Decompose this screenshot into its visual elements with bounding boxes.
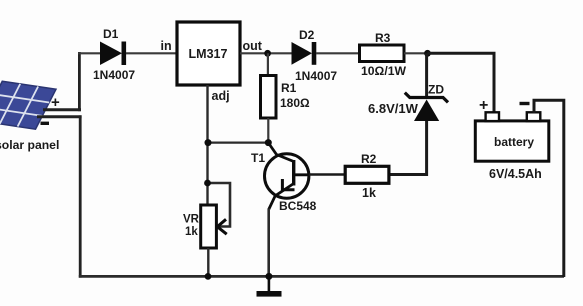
resistor R3 [360,45,405,62]
svg-text:1k: 1k [362,186,376,200]
transistor T1 [265,143,311,210]
wire vertical up to D1 rail [78,52,81,111]
svg-text:6.8V/1W: 6.8V/1W [368,101,419,116]
svg-text:180Ω: 180Ω [280,96,310,110]
svg-text:in: in [161,39,172,53]
svg-text:ZD: ZD [428,83,444,97]
potentiometer VR [201,183,230,248]
wire vertical down to bottom rail [79,115,82,277]
node wiper junction [204,180,211,187]
svg-text:T1: T1 [251,151,265,165]
wire adj down from LM317 [206,85,208,206]
wire junction to battery corner [428,53,495,113]
wire bottom ground rail [79,275,564,278]
svg-text:R2: R2 [361,152,377,166]
svg-text:battery: battery [494,135,534,149]
svg-text:1N4007: 1N4007 [93,68,135,82]
svg-text:out: out [243,39,263,53]
svg-text:adj: adj [212,89,230,103]
wire panel+ to vertical [43,108,81,111]
wire out junction to R1 [267,53,269,76]
node - (panel negative) [41,122,50,125]
diode D2 [292,42,317,65]
svg-text:+: + [479,97,488,114]
regulator U1 LM317 [177,22,240,85]
svg-text:R1: R1 [281,81,297,95]
resistor R2 [345,166,389,183]
wire junction down to zener [425,53,428,99]
node R3/ZD/battery junction [424,50,431,57]
svg-text:solar panel: solar panel [0,138,59,152]
svg-text:VR: VR [183,214,200,226]
svg-text:BC548: BC548 [279,199,317,213]
svg-text:6V/4.5Ah: 6V/4.5Ah [489,167,542,181]
wire panel- to vertical [37,115,82,118]
svg-text:1k: 1k [185,226,198,238]
wire LM317 out to D2 [240,52,292,54]
solar panel PV1 [0,81,56,129]
node adj junction [205,139,212,146]
wire D1 to LM317 in [126,52,177,54]
node collector junction [265,139,272,146]
ground [257,276,282,296]
svg-text:D1: D1 [103,27,119,41]
wire to D1 anode [78,52,101,54]
svg-text:D2: D2 [299,28,315,42]
wire D2 to R3 [316,52,360,54]
wire R3 to junction [404,52,428,54]
battery BT1 [475,112,549,161]
wire emitter to bottom rail [267,209,270,278]
svg-text:LM317: LM317 [189,47,228,61]
svg-text:R3: R3 [375,31,391,45]
diode D1 [100,42,126,66]
wire zener anode down to R2 wire [388,121,427,175]
svg-text:10Ω/1W: 10Ω/1W [361,64,406,78]
node out junction [264,50,271,57]
zener diode ZD [405,93,448,121]
wire base to R2 [309,173,346,176]
wire R1 bottom to collector node [267,118,269,143]
svg-text:1N4007: 1N4007 [295,69,337,83]
resistor R1 [261,76,277,119]
node VR/rail junction [205,273,212,280]
node - (battery) [520,102,530,105]
wire battery negative to right rail [534,100,564,277]
wire adj to collector node [208,142,269,144]
wire VR bottom to rail [207,248,209,277]
node emitter/rail junction [265,273,272,280]
